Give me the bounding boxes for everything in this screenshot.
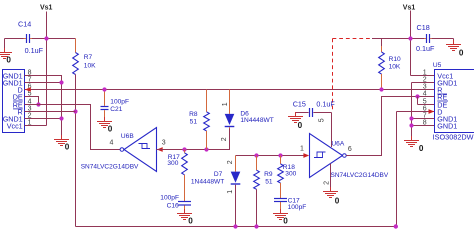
- svg-text:5: 5: [423, 99, 427, 106]
- svg-text:51: 51: [265, 178, 273, 185]
- svg-text:10K: 10K: [84, 63, 96, 70]
- junction GND1 pin2: [59, 116, 63, 120]
- junction R9 bottom: [254, 224, 258, 228]
- svg-text:4: 4: [110, 139, 114, 146]
- diode D6 1N4448WT: [221, 90, 274, 142]
- wire Vs1 left rail: [46, 12, 48, 126]
- svg-text:C21: C21: [110, 106, 122, 113]
- wire U6A.6 output to right RE/DE: [346, 97, 434, 156]
- svg-text:GND1: GND1: [437, 122, 457, 131]
- pin U6B.3 arrow: [157, 147, 163, 152]
- svg-text:U6A: U6A: [331, 140, 344, 147]
- svg-text:R8: R8: [189, 111, 198, 118]
- svg-text:2: 2: [227, 160, 234, 164]
- junction Vs1/C18: [408, 36, 412, 40]
- junction R9 top: [254, 153, 258, 157]
- svg-text:0: 0: [459, 49, 464, 58]
- svg-text:C14: C14: [18, 19, 31, 28]
- junction DE/RE: [36, 102, 40, 106]
- connector left box: [3, 70, 25, 133]
- wire R7 leg to bottom rail: [75, 75, 77, 227]
- pin U6A.1 arrow: [303, 153, 309, 158]
- junction R8 bottom: [204, 147, 208, 151]
- svg-text:Vs1: Vs1: [403, 4, 416, 11]
- junction R17 top: [182, 147, 186, 151]
- svg-text:2: 2: [221, 137, 228, 141]
- svg-text:0: 0: [108, 125, 113, 134]
- svg-text:0: 0: [298, 121, 303, 130]
- svg-text:U5: U5: [433, 62, 442, 69]
- svg-text:100pF: 100pF: [160, 195, 179, 202]
- inverter U6B SN74LVC2G14DBV: [81, 128, 166, 172]
- junction D7 bottom: [233, 224, 237, 228]
- wire U6A.1 net: [236, 155, 306, 157]
- diode D7 1N4448WT: [191, 156, 240, 227]
- pin D arrow left box: [25, 87, 31, 92]
- svg-text:0: 0: [283, 217, 288, 226]
- svg-text:2: 2: [323, 181, 330, 185]
- ground 0 right of C18: [446, 40, 464, 58]
- junction right RE/DE: [415, 94, 419, 98]
- wire dashed R10 option: [333, 39, 373, 113]
- wire right DE tie: [418, 97, 435, 105]
- pin numbers left box: [28, 70, 32, 127]
- capacitor C15 0.1uF: [293, 100, 336, 118]
- resistor R8 51: [189, 90, 209, 150]
- svg-text:1: 1: [300, 146, 304, 153]
- ground 0 right box: [404, 136, 424, 153]
- svg-text:C16: C16: [167, 202, 179, 209]
- svg-text:0: 0: [419, 144, 424, 153]
- capacitor C17 100pF: [274, 197, 306, 211]
- resistor R7 10K: [73, 39, 96, 75]
- svg-text:0: 0: [6, 56, 11, 65]
- svg-text:1N4448WT: 1N4448WT: [240, 117, 273, 124]
- svg-text:300: 300: [285, 171, 296, 178]
- wire D net (A line): [25, 89, 435, 91]
- junction R10 bottom: [379, 87, 383, 91]
- svg-text:R9: R9: [264, 171, 273, 178]
- svg-text:6: 6: [423, 106, 427, 113]
- svg-text:0.1uF: 0.1uF: [25, 46, 44, 55]
- wire right D pin: [397, 111, 435, 113]
- svg-text:4: 4: [423, 91, 427, 98]
- ground 0 under C21: [97, 117, 113, 134]
- transceiver U5 ISO3082DW: [433, 62, 474, 142]
- svg-text:5: 5: [318, 118, 325, 122]
- svg-text:U6B: U6B: [121, 133, 134, 140]
- inverter U6A SN74LVC2G14DBV: [310, 134, 389, 179]
- resistor R17 300: [167, 150, 187, 202]
- wire U6A.5 stub: [331, 113, 333, 148]
- wire U6A.2 stub + ground: [330, 164, 332, 192]
- svg-text:0: 0: [65, 142, 70, 151]
- svg-text:100pF: 100pF: [110, 99, 129, 106]
- ground 0 left of C15: [288, 112, 303, 130]
- resistor R10 10K: [379, 39, 401, 90]
- svg-text:SN74LVC2G14DBV: SN74LVC2G14DBV: [331, 172, 389, 179]
- capacitor C21 100pF: [101, 90, 130, 118]
- svg-text:2: 2: [423, 77, 427, 84]
- wire right GND pins 2,7,8: [412, 83, 435, 137]
- svg-text:C18: C18: [417, 23, 430, 32]
- wire RE to U6B.4: [25, 105, 121, 150]
- svg-text:51: 51: [190, 119, 198, 126]
- capacitor C14 0.1uF: [18, 19, 44, 55]
- svg-text:ISO3082DW: ISO3082DW: [433, 133, 474, 142]
- svg-text:1: 1: [222, 102, 229, 106]
- svg-text:0: 0: [188, 216, 193, 225]
- svg-text:300: 300: [167, 160, 178, 167]
- wire R to R7 junction: [25, 111, 76, 113]
- capacitor C16 100pF: [160, 195, 191, 210]
- resistor R18 300: [278, 156, 297, 199]
- pin D arrow right box: [429, 109, 435, 114]
- svg-text:6: 6: [348, 146, 352, 153]
- svg-text:Vcc1: Vcc1: [7, 122, 23, 131]
- junction R18 top: [278, 153, 282, 157]
- wire DE tie to RE: [25, 97, 39, 105]
- svg-text:1: 1: [227, 190, 234, 194]
- svg-text:0.1uF: 0.1uF: [316, 100, 335, 109]
- junction R7/R net: [73, 109, 77, 113]
- svg-text:SN74LVC2G14DBV: SN74LVC2G14DBV: [81, 164, 139, 171]
- junction D/C21: [102, 87, 106, 91]
- ground 0 top-left: [0, 48, 12, 65]
- svg-text:3: 3: [423, 84, 427, 91]
- svg-text:1N4448WT: 1N4448WT: [191, 179, 224, 186]
- svg-text:0: 0: [335, 196, 340, 205]
- svg-text:Vs1: Vs1: [40, 5, 53, 12]
- svg-text:D7: D7: [214, 171, 223, 178]
- svg-text:7: 7: [423, 113, 427, 120]
- svg-text:3: 3: [162, 139, 166, 146]
- wire C18 net: [382, 39, 454, 41]
- wire U6B.3 net: [157, 128, 230, 150]
- capacitor C18 0.1uF: [416, 23, 435, 53]
- svg-text:R10: R10: [389, 56, 401, 63]
- ground 0 left box: [54, 135, 70, 151]
- pin numbers right box: [423, 70, 427, 127]
- wire C14 net: [5, 39, 76, 49]
- junction right GND1 pin8: [409, 123, 413, 127]
- junction right GND1 pin7: [409, 116, 413, 120]
- junction Vs1/C14: [44, 36, 48, 40]
- wire Vcc1 pin1: [25, 125, 47, 127]
- svg-text:10K: 10K: [389, 64, 401, 71]
- wire bottom rail: [76, 112, 397, 227]
- svg-text:0.1uF: 0.1uF: [416, 44, 435, 53]
- ground 0 under C16: [177, 209, 193, 225]
- svg-text:100pF: 100pF: [288, 204, 307, 211]
- wire Vs1 right rail: [411, 11, 435, 76]
- junction rail corner: [394, 224, 398, 228]
- svg-text:C15: C15: [293, 100, 306, 109]
- svg-text:8: 8: [423, 120, 427, 127]
- wire GND1 pins 8,7,2: [25, 76, 62, 136]
- svg-text:R7: R7: [84, 54, 93, 61]
- svg-text:1: 1: [423, 70, 427, 77]
- ground 0 under C17: [273, 209, 288, 226]
- resistor R9 51: [254, 156, 273, 227]
- junction GND1 pin7: [59, 80, 63, 84]
